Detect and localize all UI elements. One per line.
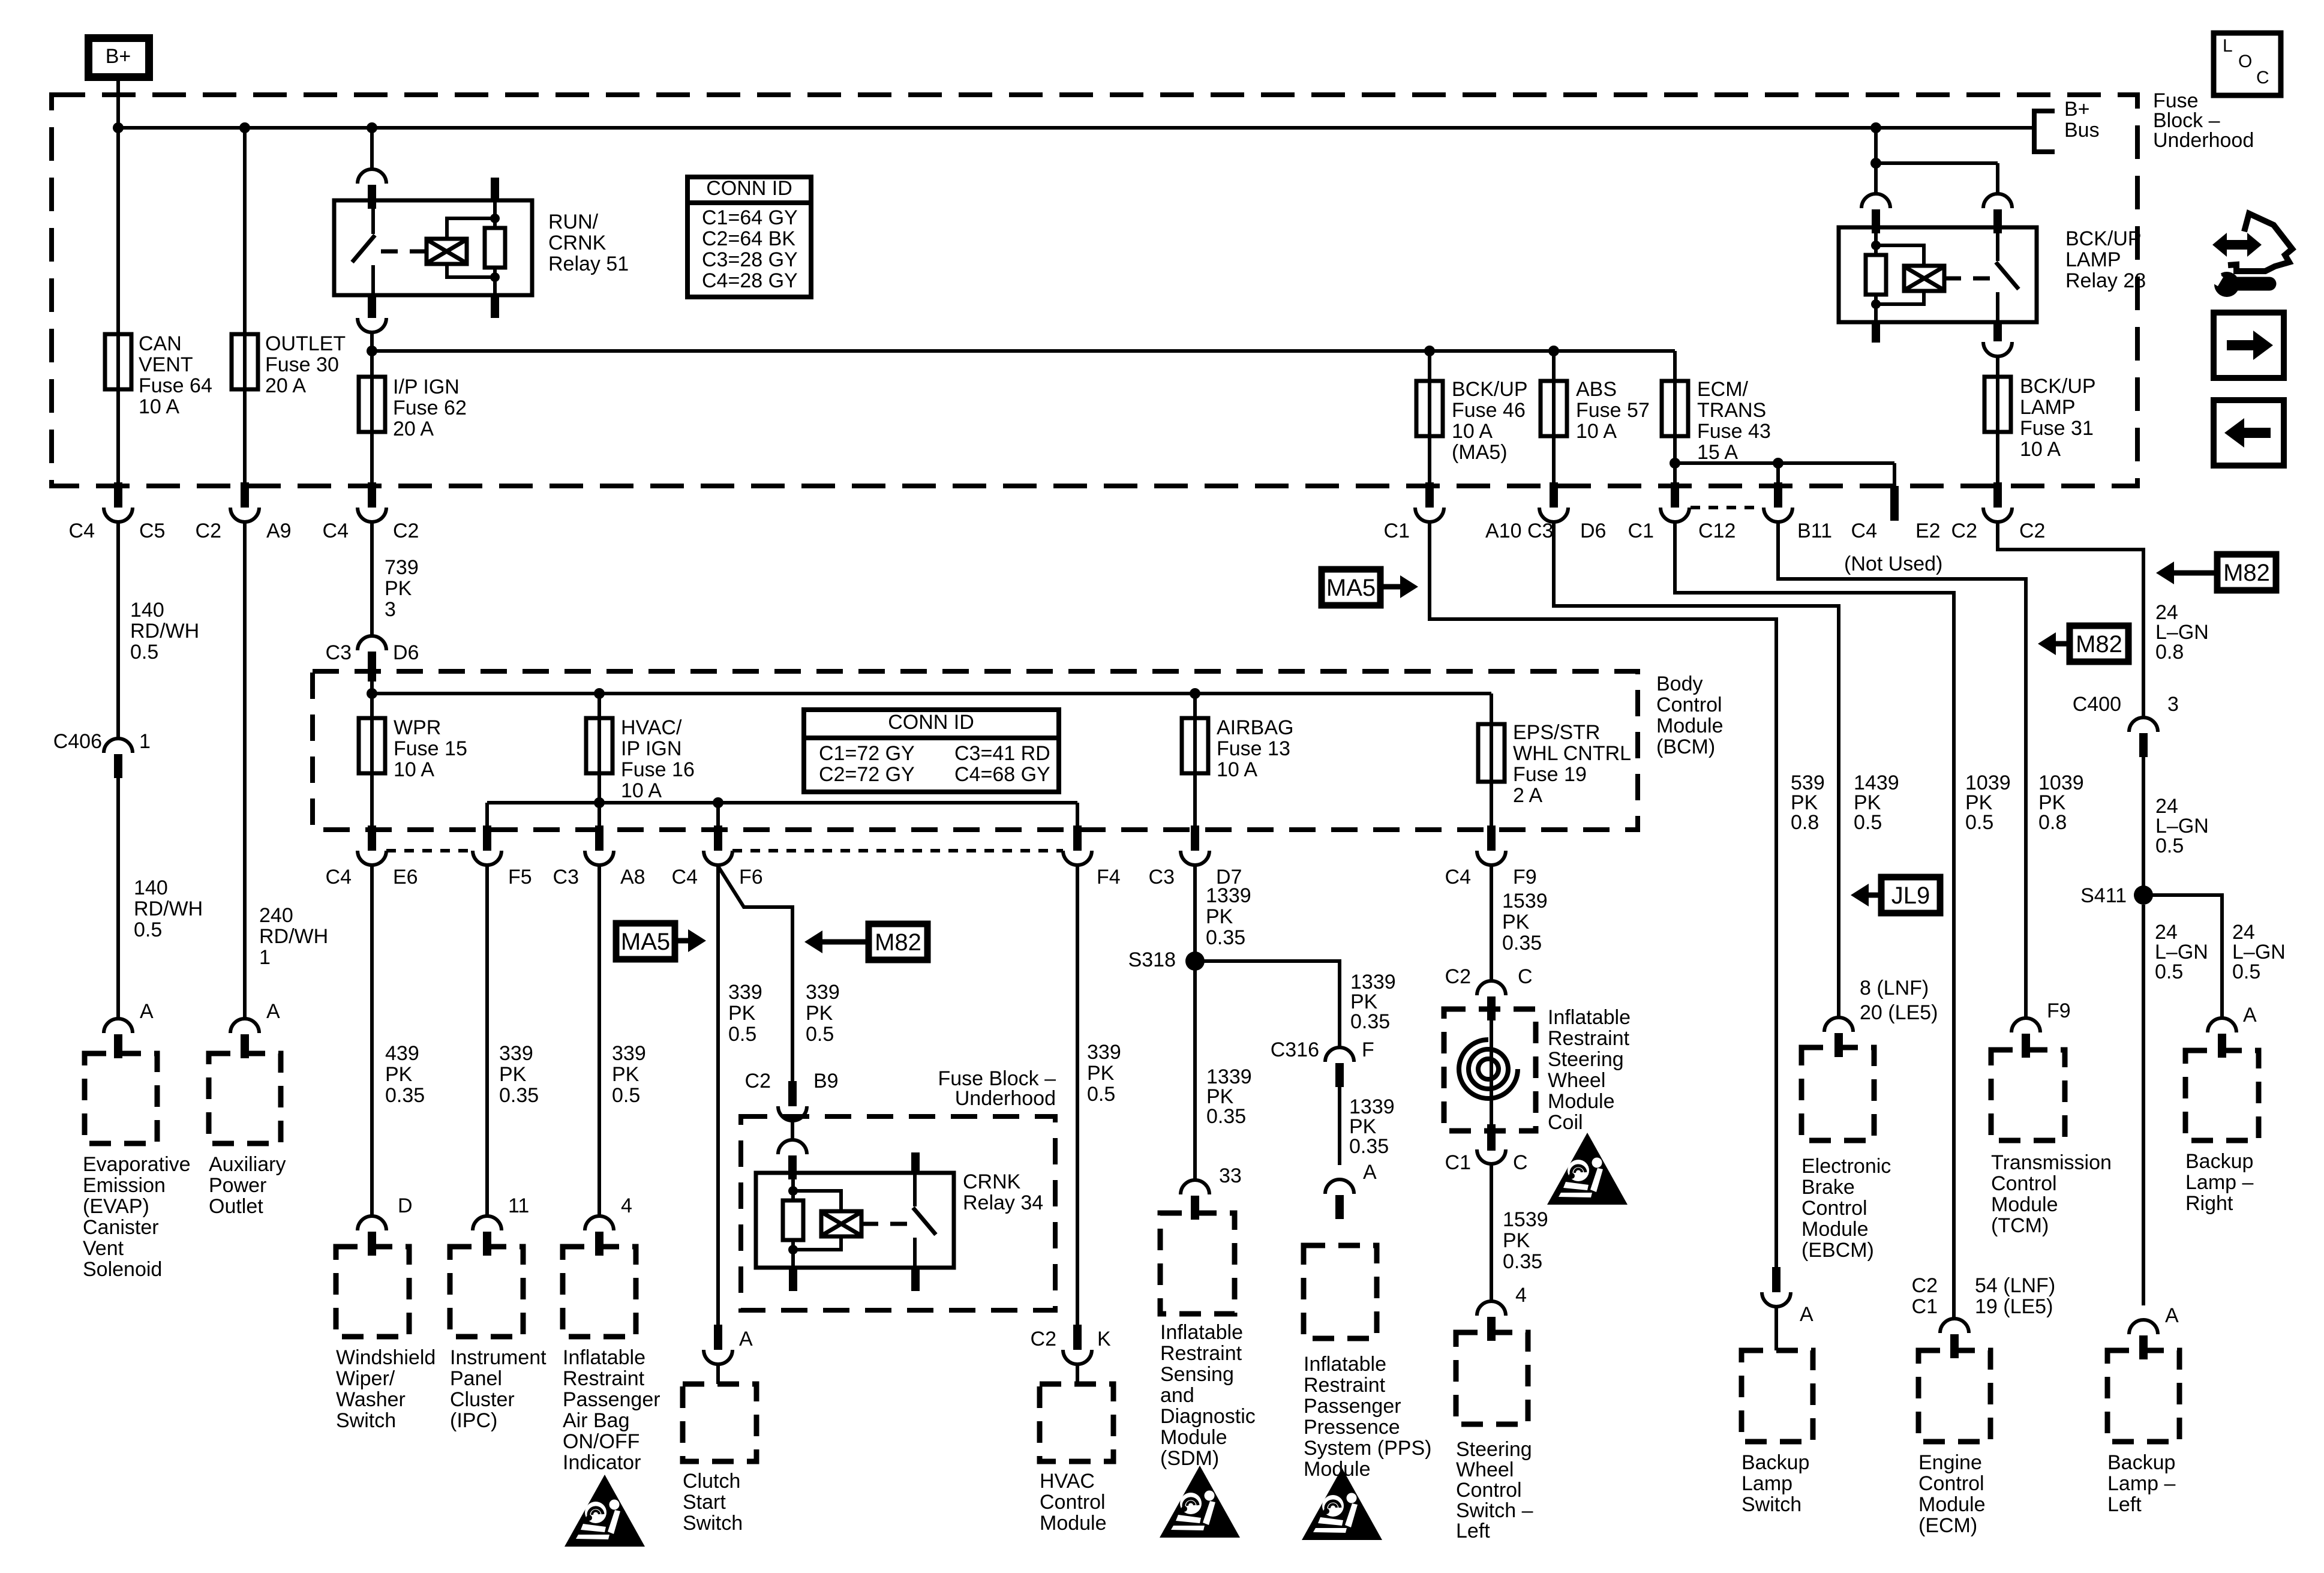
HVAC control module box	[1040, 1384, 1113, 1461]
svg-text:PK: PK	[385, 577, 412, 600]
svg-text:HVAC: HVAC	[1040, 1470, 1095, 1493]
svg-text:Module: Module	[1991, 1193, 2058, 1216]
svg-text:OUTLET: OUTLET	[265, 332, 346, 355]
wire B11 route to TCM	[1778, 523, 2026, 1018]
svg-text:IP IGN: IP IGN	[621, 737, 681, 760]
connector C4/E6 exit	[358, 825, 386, 865]
wire A10 route to backup lamp switch	[1430, 523, 1776, 1273]
node fuse43 out	[1670, 458, 1680, 469]
svg-text:0.5: 0.5	[134, 918, 162, 941]
svg-text:Steering: Steering	[1456, 1438, 1532, 1461]
fuse F19 EPS/STR	[1490, 723, 1493, 783]
ECM box	[1918, 1350, 1990, 1442]
wire F9 to C2/C	[1490, 866, 1493, 981]
arrow MA5 left	[675, 938, 688, 944]
feed line to BCK/UP ABS ECM fuses	[372, 349, 1675, 353]
coil wire upper	[1490, 1018, 1493, 1131]
connector F5 exit	[473, 825, 502, 865]
svg-text:(IPC): (IPC)	[450, 1409, 497, 1432]
svg-text:RD/WH: RD/WH	[259, 925, 328, 948]
svg-text:Passenger: Passenger	[1304, 1395, 1401, 1418]
svg-text:C: C	[1513, 1151, 1528, 1174]
air bag on/off indicator box	[563, 1247, 636, 1337]
dotted joint C12-B11	[1691, 506, 1762, 509]
svg-text:C2: C2	[1031, 1328, 1056, 1350]
svg-text:B+: B+	[106, 45, 131, 68]
wire into backup lamp switch	[1774, 1308, 1778, 1350]
wire bus to OUTLET fuse	[243, 128, 247, 334]
svg-text:CAN: CAN	[139, 332, 182, 355]
wire F6 to clutch switch	[716, 866, 720, 1328]
CONN ID table (fuse block)	[687, 177, 811, 297]
svg-text:K: K	[1097, 1328, 1111, 1350]
svg-text:0.5: 0.5	[2232, 960, 2260, 983]
svg-text:C: C	[1518, 965, 1533, 988]
relay34 coil bottom pin stub	[789, 1268, 797, 1291]
svg-text:HVAC/: HVAC/	[621, 716, 682, 739]
splice S318	[1185, 951, 1205, 971]
svg-text:Auxiliary: Auxiliary	[209, 1153, 286, 1176]
svg-text:Outlet: Outlet	[209, 1195, 263, 1218]
svg-text:Instrument: Instrument	[450, 1346, 547, 1369]
relay51 switch bottom pin	[368, 295, 376, 318]
fuse F62 I/P IGN	[370, 376, 374, 433]
svg-text:Panel: Panel	[450, 1367, 502, 1390]
connector into backup lamp right	[2208, 1018, 2236, 1058]
wire fuse46 to connector	[1428, 436, 1431, 485]
warning triangle (SDM)	[1160, 1466, 1240, 1538]
svg-text:11: 11	[508, 1194, 529, 1217]
svg-text:RUN/: RUN/	[548, 211, 599, 233]
inline connector inside fuse block	[778, 1140, 807, 1179]
svg-text:Transmission: Transmission	[1991, 1151, 2112, 1174]
svg-text:Fuse 15: Fuse 15	[394, 737, 467, 760]
service icon wrench	[2230, 277, 2269, 291]
svg-text:F9: F9	[1513, 866, 1537, 888]
svg-text:PK: PK	[1502, 911, 1530, 933]
svg-text:15 A: 15 A	[1697, 441, 1738, 464]
svg-text:0.5: 0.5	[2155, 960, 2183, 983]
splice S411	[2134, 885, 2153, 905]
wire C400 to S411	[2142, 756, 2145, 895]
svg-text:Wheel: Wheel	[1456, 1458, 1514, 1481]
wire coil to switch	[1490, 1165, 1493, 1301]
svg-text:BCK/UP: BCK/UP	[1452, 378, 1528, 401]
connector C2/K HVAC	[1063, 1325, 1092, 1364]
svg-text:Canister: Canister	[83, 1216, 159, 1239]
svg-text:739: 739	[385, 556, 419, 579]
wire S411 branch to backup right	[2143, 895, 2222, 1018]
svg-text:E2: E2	[1915, 520, 1941, 542]
svg-text:C1=64 GY: C1=64 GY	[702, 206, 798, 229]
svg-text:PK: PK	[728, 1002, 756, 1025]
svg-text:240: 240	[259, 904, 293, 927]
svg-text:Fuse 30: Fuse 30	[265, 353, 339, 376]
connector F4 exit	[1063, 825, 1092, 865]
svg-text:C4: C4	[323, 520, 349, 542]
svg-text:Restraint: Restraint	[563, 1367, 645, 1390]
wire bus to CAN VENT fuse	[116, 128, 120, 334]
fuse F64 CAN VENT	[116, 333, 120, 391]
svg-text:1: 1	[259, 946, 271, 969]
wire to relay28 switch conn	[1996, 163, 1999, 194]
wire fuse64 to connector	[116, 389, 120, 485]
connector 11 into IPC	[473, 1216, 502, 1256]
coil bottom pin	[1487, 1131, 1496, 1151]
wire to B11 connector	[1776, 463, 1780, 485]
connector into TCM	[2011, 1018, 2040, 1058]
wire C316 to PPS	[1338, 1086, 1341, 1165]
EVAP canister vent solenoid box	[85, 1053, 157, 1143]
fuse F46 BCK/UP	[1428, 380, 1431, 437]
svg-text:10 A: 10 A	[1576, 420, 1617, 443]
fuse F30 OUTLET	[243, 333, 247, 391]
svg-text:0.5: 0.5	[2155, 834, 2184, 857]
wire A9 to outlet	[243, 523, 247, 1017]
svg-text:Start: Start	[683, 1491, 726, 1514]
svg-text:A: A	[140, 1000, 154, 1023]
connector C1/C below coil	[1477, 1124, 1506, 1164]
svg-text:439: 439	[385, 1042, 419, 1065]
svg-text:B11: B11	[1797, 520, 1832, 542]
connector A backup lamp switch	[1762, 1267, 1791, 1307]
connector A into PPS	[1325, 1179, 1354, 1219]
service icon component outline	[2228, 214, 2292, 271]
node relay51 output	[367, 346, 377, 356]
svg-text:and: and	[1160, 1384, 1194, 1407]
wire A8 down	[597, 803, 601, 828]
svg-text:0.8: 0.8	[2038, 811, 2067, 834]
svg-text:339: 339	[499, 1042, 533, 1065]
relay34 switch top pin stub	[911, 1152, 920, 1173]
node feed-F57	[1548, 346, 1559, 356]
svg-text:0.35: 0.35	[1350, 1010, 1390, 1033]
svg-text:Air Bag: Air Bag	[563, 1409, 630, 1432]
PPS module box	[1304, 1245, 1377, 1338]
svg-text:339: 339	[806, 981, 840, 1004]
connector C1/C12 exit	[1661, 482, 1689, 522]
svg-text:19 (LE5): 19 (LE5)	[1975, 1295, 2053, 1318]
wire C2 to D6	[370, 523, 374, 636]
svg-text:C2: C2	[1951, 520, 1977, 542]
svg-text:(TCM): (TCM)	[1991, 1214, 2049, 1237]
svg-text:A: A	[2165, 1304, 2179, 1327]
svg-text:10 A: 10 A	[1217, 758, 1257, 781]
svg-text:M82: M82	[875, 929, 921, 956]
svg-text:1539: 1539	[1503, 1208, 1548, 1231]
svg-text:C3=41 RD: C3=41 RD	[954, 742, 1050, 765]
svg-text:PK: PK	[1503, 1229, 1530, 1252]
connector into ECM	[1940, 1319, 1969, 1358]
svg-text:S318: S318	[1128, 948, 1176, 971]
svg-text:PK: PK	[499, 1063, 527, 1086]
svg-text:I/P IGN: I/P IGN	[393, 376, 460, 398]
wire D7 to S318	[1193, 866, 1197, 961]
connector C3/A8 exit	[585, 825, 614, 865]
wire C2 route to C400	[1998, 523, 2143, 718]
svg-text:1339: 1339	[1206, 884, 1251, 907]
wire fuse57 to connector	[1552, 436, 1556, 485]
warning triangle (air bag indicator)	[565, 1475, 645, 1547]
svg-text:C12: C12	[1698, 520, 1736, 542]
svg-text:LAMP: LAMP	[2065, 248, 2121, 271]
svg-text:0.35: 0.35	[1502, 932, 1542, 954]
wire bus to relay51	[370, 128, 374, 169]
svg-text:C2: C2	[2019, 520, 2045, 542]
svg-text:C1=72 GY: C1=72 GY	[819, 742, 915, 765]
svg-text:PK: PK	[385, 1063, 413, 1086]
CONN ID table (BCM)	[804, 710, 1059, 792]
SDM box	[1160, 1213, 1235, 1314]
svg-text:Bus: Bus	[2064, 119, 2100, 142]
EBCM box	[1801, 1047, 1874, 1140]
B+ Bus bracket terminal	[2034, 111, 2055, 152]
svg-text:Control: Control	[1456, 1479, 1522, 1502]
svg-text:C4: C4	[672, 866, 698, 888]
svg-text:C1: C1	[1912, 1295, 1938, 1318]
inline connector C316	[1325, 1047, 1354, 1087]
svg-text:Backup: Backup	[2107, 1451, 2175, 1474]
wire fuse30 to connector	[243, 389, 247, 485]
svg-text:D6: D6	[1580, 520, 1606, 542]
svg-text:ECM/: ECM/	[1697, 378, 1749, 401]
svg-text:Fuse 57: Fuse 57	[1576, 399, 1650, 422]
steering wheel control switch box	[1456, 1332, 1528, 1424]
tag JL9	[1881, 877, 1940, 913]
connector A into EVAP	[104, 1019, 133, 1058]
svg-text:Lamp: Lamp	[1742, 1472, 1792, 1495]
svg-text:Backup: Backup	[1742, 1451, 1809, 1474]
svg-text:C4=28 GY: C4=28 GY	[702, 269, 798, 292]
svg-text:A10: A10	[1485, 520, 1522, 542]
inline connector C3/D6	[358, 636, 386, 676]
svg-text:0.8: 0.8	[1791, 811, 1819, 834]
wire C5 to C406	[116, 523, 120, 737]
svg-text:Windshield: Windshield	[336, 1346, 436, 1369]
svg-text:10 A: 10 A	[621, 779, 662, 802]
svg-text:D: D	[398, 1194, 413, 1217]
node lower-F16	[594, 797, 605, 808]
svg-text:C2: C2	[745, 1070, 771, 1092]
svg-text:PK: PK	[806, 1002, 833, 1025]
svg-text:Power: Power	[209, 1174, 266, 1197]
svg-text:2 A: 2 A	[1513, 784, 1542, 807]
wire fuse13 to D7	[1193, 773, 1197, 828]
svg-text:A9: A9	[266, 520, 292, 542]
wire to AIRBAG fuse	[1193, 694, 1197, 718]
connector into relay51 switch	[358, 169, 386, 209]
svg-text:F: F	[1362, 1038, 1374, 1061]
svg-text:339: 339	[1087, 1041, 1121, 1064]
svg-text:Restraint: Restraint	[1304, 1374, 1386, 1397]
relay34 switch bottom pin stub	[911, 1268, 920, 1291]
node bus-OUTLET	[239, 122, 250, 133]
node feed-F46	[1424, 346, 1435, 356]
svg-text:339: 339	[612, 1042, 646, 1065]
connector into EBCM	[1824, 1017, 1853, 1057]
back arrow box	[2214, 400, 2284, 466]
svg-text:Switch: Switch	[683, 1512, 743, 1535]
inline connector C406	[104, 739, 133, 778]
svg-text:PK: PK	[1087, 1062, 1115, 1085]
svg-text:Cluster: Cluster	[450, 1388, 515, 1411]
connector C2/B9 exit	[778, 1081, 807, 1121]
svg-text:C3: C3	[326, 641, 352, 664]
svg-text:20 (LE5): 20 (LE5)	[1860, 1001, 1938, 1024]
svg-text:C3: C3	[1149, 866, 1175, 888]
wire to EPS fuse	[1490, 694, 1493, 724]
BCM feed line	[372, 692, 1491, 695]
relay28 coil bottom pin stub	[1872, 322, 1880, 343]
svg-text:Module: Module	[1801, 1218, 1869, 1241]
svg-text:Inflatable: Inflatable	[1548, 1006, 1631, 1029]
connector C4/C2 exit	[358, 482, 386, 522]
arrow M82 left	[822, 939, 869, 945]
wire E2 stub	[1893, 463, 1896, 487]
fuse F16 HVAC/IP IGN	[597, 717, 601, 775]
wire F5 to IPC	[485, 866, 489, 1216]
svg-text:C2: C2	[196, 520, 221, 542]
svg-text:Pressence: Pressence	[1304, 1416, 1400, 1439]
wire fuse62 to connector	[370, 432, 374, 485]
connector C3/D7 exit	[1181, 825, 1209, 865]
svg-text:A: A	[1363, 1161, 1377, 1184]
svg-text:CRNK: CRNK	[963, 1170, 1021, 1193]
svg-text:Control: Control	[1918, 1472, 1984, 1495]
wire fuse19 to F9	[1490, 782, 1493, 828]
wire fuse16 down	[597, 773, 601, 803]
svg-text:Steering: Steering	[1548, 1048, 1624, 1071]
wire into HVAC module	[1076, 1365, 1079, 1384]
svg-text:Evaporative: Evaporative	[83, 1153, 191, 1176]
svg-text:Fuse 62: Fuse 62	[393, 397, 467, 419]
connector C3/D6 exit	[1539, 482, 1568, 522]
svg-text:Module: Module	[1160, 1426, 1227, 1449]
svg-text:F9: F9	[2047, 999, 2071, 1022]
svg-text:C4=68 GY: C4=68 GY	[954, 763, 1050, 786]
connector C4/F6 exit	[704, 825, 732, 865]
svg-text:Right: Right	[2185, 1192, 2233, 1215]
svg-text:A: A	[266, 1000, 280, 1023]
svg-text:AIRBAG: AIRBAG	[1217, 716, 1293, 739]
svg-text:Control: Control	[1991, 1172, 2057, 1195]
svg-text:C2: C2	[393, 520, 419, 542]
svg-text:54 (LNF): 54 (LNF)	[1975, 1274, 2055, 1297]
relay51 coil top pin stub	[491, 178, 499, 200]
node lower-F6	[713, 797, 723, 808]
tag MA5 left	[616, 923, 675, 959]
svg-text:0.35: 0.35	[1206, 1105, 1246, 1128]
svg-text:8 (LNF): 8 (LNF)	[1860, 977, 1929, 999]
node BCM-F16	[594, 688, 605, 699]
tag M82 left	[869, 924, 927, 960]
svg-text:Module: Module	[1656, 715, 1724, 737]
svg-text:20 A: 20 A	[265, 374, 306, 397]
connector A clutch start switch	[704, 1325, 732, 1364]
svg-text:10 A: 10 A	[139, 395, 179, 418]
svg-text:C406: C406	[53, 730, 102, 753]
svg-text:C: C	[2256, 68, 2269, 88]
svg-text:C4: C4	[326, 866, 352, 888]
windshield wiper/washer switch box	[336, 1247, 409, 1337]
svg-text:F6: F6	[739, 866, 763, 888]
service icon double arrow	[2212, 233, 2262, 257]
svg-text:339: 339	[728, 981, 762, 1004]
svg-text:C5: C5	[139, 520, 165, 542]
svg-text:M82: M82	[2076, 631, 2122, 658]
wire fuse31 to connector	[1996, 432, 1999, 485]
warning triangle (steering)	[1547, 1133, 1628, 1205]
wire B9 into fuse block	[791, 1122, 794, 1140]
backup lamp switch box	[1742, 1350, 1813, 1442]
tag M82 top	[2217, 554, 2276, 590]
connector C1/A10 exit	[1415, 482, 1444, 522]
connector into relay28 switch	[1983, 194, 2012, 233]
svg-text:0.5: 0.5	[728, 1023, 756, 1046]
BCM lower line	[487, 801, 1077, 804]
clutch start switch box	[683, 1384, 756, 1461]
wire D6 into BCM	[370, 674, 374, 696]
svg-text:(MA5): (MA5)	[1452, 441, 1508, 464]
svg-text:F5: F5	[508, 866, 532, 888]
svg-text:Restraint: Restraint	[1160, 1342, 1242, 1365]
svg-text:Module: Module	[1548, 1090, 1615, 1113]
tag MA5 right	[1322, 569, 1380, 605]
node BCM-D6	[367, 688, 377, 699]
svg-text:D6: D6	[393, 641, 419, 664]
fuse F43 ECM/TRANS	[1673, 380, 1677, 437]
wire F4 to HVAC	[1076, 866, 1079, 1328]
wire to HVAC fuse	[597, 694, 601, 718]
svg-text:Indicator: Indicator	[563, 1451, 641, 1474]
wire to relay28 coil conn	[1874, 163, 1878, 194]
svg-text:C3=28 GY: C3=28 GY	[702, 248, 798, 271]
branch S318 to C316	[1195, 961, 1340, 1047]
svg-text:C3: C3	[553, 866, 579, 888]
svg-text:C4: C4	[1851, 520, 1877, 542]
svg-text:0.5: 0.5	[1854, 811, 1882, 834]
wire C12 route to ECM	[1675, 523, 1954, 1319]
svg-text:Fuse 13: Fuse 13	[1217, 737, 1290, 760]
wire S411 to backup left	[2142, 905, 2145, 1305]
svg-text:Backup: Backup	[2185, 1150, 2253, 1173]
wire to fuse57	[1552, 351, 1556, 381]
backup lamp left box	[2107, 1350, 2179, 1442]
svg-text:0.35: 0.35	[1503, 1250, 1542, 1273]
svg-text:Module: Module	[1040, 1512, 1107, 1535]
connector C4/C5 exit	[104, 482, 133, 522]
svg-text:M82: M82	[2223, 560, 2270, 586]
svg-text:Underhood: Underhood	[2153, 129, 2254, 152]
svg-text:Relay 28: Relay 28	[2065, 269, 2146, 292]
svg-text:(ECM): (ECM)	[1918, 1514, 1977, 1537]
svg-text:C1: C1	[1445, 1151, 1471, 1174]
connector D into wiper switch	[358, 1216, 386, 1256]
connector B11 exit	[1764, 482, 1792, 522]
svg-text:E6: E6	[393, 866, 418, 888]
fuse F13 AIRBAG	[1193, 717, 1197, 775]
backup lamp right box	[2185, 1050, 2259, 1140]
svg-text:(Not Used): (Not Used)	[1844, 553, 1942, 575]
svg-text:C4: C4	[1445, 866, 1471, 888]
wire S318 to SDM	[1193, 961, 1197, 1180]
svg-text:L: L	[2223, 36, 2233, 56]
B+ bus line	[118, 126, 2034, 130]
svg-text:10 A: 10 A	[1452, 420, 1493, 443]
svg-text:C316: C316	[1271, 1038, 1319, 1061]
svg-text:C2: C2	[1445, 965, 1471, 988]
svg-text:S411: S411	[2080, 884, 2127, 907]
